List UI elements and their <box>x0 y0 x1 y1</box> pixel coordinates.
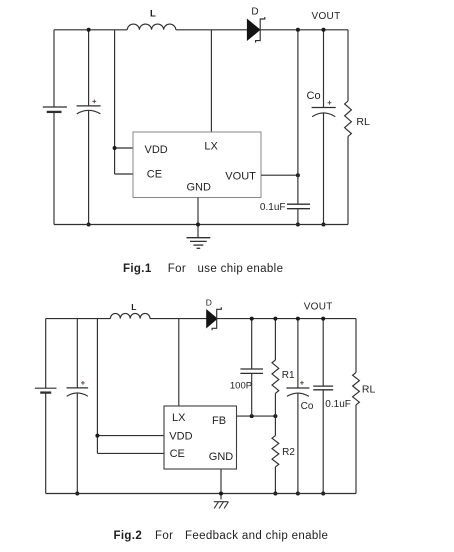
wire top rail left (battery node to diode anode) <box>54 29 247 31</box>
node dot bottom of input cap <box>75 492 79 496</box>
wire Co column <box>323 30 325 225</box>
wire 100P column <box>251 319 253 417</box>
svg-text:For: For <box>168 263 186 275</box>
svg-text:Co: Co <box>307 90 321 102</box>
svg-text:Feedback and chip enable: Feedback and chip enable <box>185 530 328 542</box>
battery B2 <box>35 388 57 392</box>
capacitor 100P <box>240 369 263 373</box>
capacitor C2 (polarized input cap) <box>67 388 89 396</box>
svg-text:RL: RL <box>362 383 376 395</box>
wire GND pin to ground <box>197 198 199 238</box>
resistor R1 <box>272 360 279 393</box>
node dot bottom of Co column <box>296 492 300 496</box>
node dot bottom of R2 column <box>273 492 277 496</box>
wire input capacitor column <box>76 319 78 494</box>
node dot bottom of 0.1uF column <box>296 223 300 227</box>
svg-text:R2: R2 <box>282 447 295 458</box>
svg-text:VDD: VDD <box>145 144 168 156</box>
resistor RL <box>353 373 360 405</box>
node dot VDD tap <box>113 146 117 150</box>
svg-text:FB: FB <box>212 415 226 427</box>
plus sign of Co <box>328 101 332 105</box>
svg-text:R1: R1 <box>282 370 295 381</box>
wire RL column <box>347 30 349 225</box>
wire top rail right (diode cathode to VOUT corner) <box>260 29 348 31</box>
svg-text:For: For <box>155 530 173 542</box>
op chip U2 box <box>164 406 237 469</box>
wire top rail right (diode cathode to RL corner) <box>217 318 356 320</box>
node dot top of Co column <box>322 28 326 32</box>
svg-text:VDD: VDD <box>169 430 192 442</box>
svg-text:Fig.2: Fig.2 <box>114 530 143 542</box>
wire R1/R2 column <box>274 319 276 494</box>
wire VDD pin <box>97 435 164 437</box>
wire top rail left (battery corner to diode anode) <box>46 318 207 320</box>
node dot VOUT junction <box>296 173 300 177</box>
svg-text:CE: CE <box>170 448 185 460</box>
plus sign of C1 <box>92 100 96 104</box>
svg-text:LX: LX <box>204 140 218 152</box>
svg-text:GND: GND <box>187 181 212 193</box>
node dot VDD tap <box>95 434 99 438</box>
capacitor Co (polarized output cap) <box>312 108 336 117</box>
node dot top of C1 <box>87 28 91 32</box>
node dot top of 0.1uF column <box>296 28 300 32</box>
node dot bottom of Co column <box>322 223 326 227</box>
node dot top of Co column <box>296 317 300 321</box>
svg-text:L: L <box>131 302 136 312</box>
capacitor 0.1uF <box>287 204 310 209</box>
svg-text:100P: 100P <box>230 380 252 391</box>
wire VDD/CE feed column <box>96 319 98 454</box>
wire VOUT pin to output node <box>261 174 298 176</box>
wire bottom rail <box>54 224 348 226</box>
capacitor Co (polarized output cap) <box>286 388 309 396</box>
diode D (schottky) triangle <box>207 310 218 328</box>
wire Co column <box>297 319 299 494</box>
wire CE pin <box>97 452 164 454</box>
wire GND pin to ground <box>220 469 222 499</box>
svg-text:VOUT: VOUT <box>312 11 341 22</box>
resistor RL <box>345 101 352 136</box>
diode D cathode bar with schottky hooks <box>256 17 265 43</box>
node dot top of 100P column <box>250 317 254 321</box>
node dot bottom of C1 <box>87 223 91 227</box>
node dot top of 0.1uF column <box>321 317 325 321</box>
svg-text:VOUT: VOUT <box>225 171 256 183</box>
svg-text:D: D <box>251 7 258 18</box>
node dot GND junction <box>219 492 223 496</box>
node dot top of R1 column <box>273 317 277 321</box>
node dot FB-100P junction <box>250 414 254 418</box>
inductor L <box>127 24 175 30</box>
svg-text:0.1uF: 0.1uF <box>260 202 286 213</box>
wire FB pin to divider junction <box>237 415 276 417</box>
svg-text:CE: CE <box>147 168 162 180</box>
diode D (schottky) triangle <box>247 19 260 40</box>
wire input capacitor column <box>88 30 90 225</box>
resistor R2 <box>272 436 279 467</box>
battery B1 <box>43 107 67 112</box>
capacitor C1 (polarized input cap) <box>77 106 101 114</box>
plus sign of Co <box>300 381 304 385</box>
svg-text:D: D <box>206 297 212 307</box>
svg-text:Co: Co <box>301 401 314 412</box>
wire 0.1uF column <box>297 30 299 225</box>
svg-text:GND: GND <box>209 451 234 463</box>
svg-text:L: L <box>150 8 156 19</box>
ground (chassis symbol) <box>214 502 229 509</box>
svg-text:use chip enable: use chip enable <box>198 263 284 275</box>
op chip U1 box <box>133 132 261 198</box>
svg-text:VOUT: VOUT <box>304 302 333 313</box>
node dot bottom of 0.1uF column <box>321 492 325 496</box>
wire battery column <box>53 30 55 225</box>
node dot FB-R1R2 junction <box>273 414 277 418</box>
ground (earth symbol) <box>187 238 211 249</box>
node dot GND junction <box>196 223 200 227</box>
wire RL column <box>355 319 357 494</box>
wire LX column <box>210 30 212 132</box>
wire VDD pin <box>115 147 133 149</box>
wire LX column <box>178 319 180 406</box>
svg-text:LX: LX <box>172 412 186 424</box>
diode D cathode bar with schottky hooks <box>212 307 221 330</box>
plus sign of C2 <box>81 381 85 385</box>
wire CE pin <box>115 173 133 175</box>
capacitor 0.1uF <box>313 386 333 390</box>
svg-text:RL: RL <box>356 116 370 128</box>
inductor L <box>110 313 150 318</box>
wire 0.1uF column <box>322 319 324 494</box>
wire battery column <box>45 319 47 494</box>
wire bottom rail <box>46 493 356 495</box>
svg-text:Fig.1: Fig.1 <box>123 263 152 275</box>
wire VDD/CE feed column <box>114 30 116 174</box>
svg-text:0.1uF: 0.1uF <box>325 399 351 410</box>
